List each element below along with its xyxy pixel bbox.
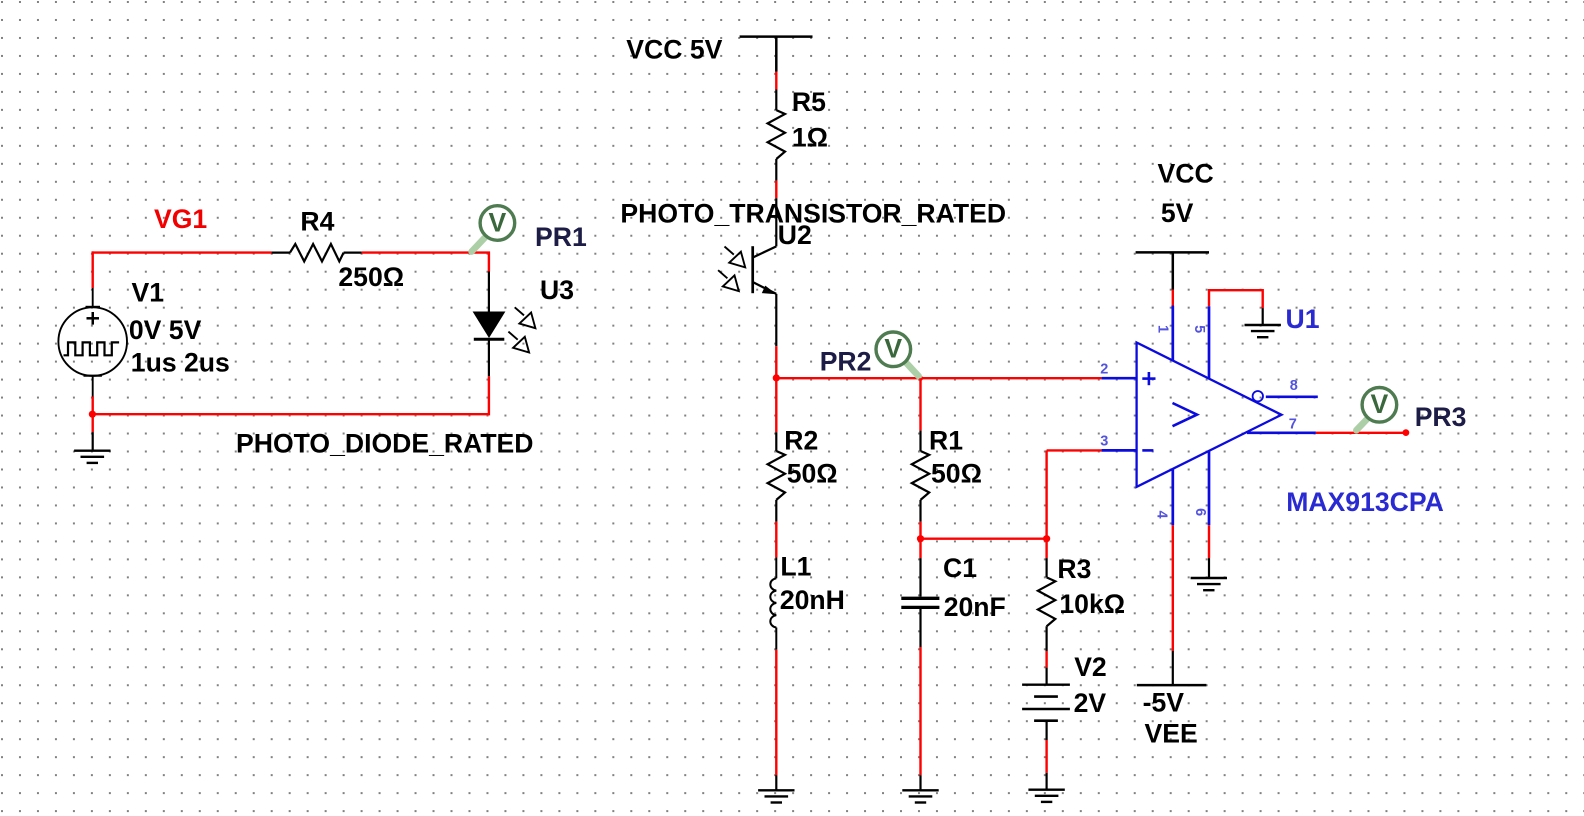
power VCC rail 1 (740, 37, 813, 72)
svg-text:10kΩ: 10kΩ (1059, 589, 1125, 619)
svg-text:5: 5 (1191, 325, 1207, 333)
pin 2 lead (1102, 377, 1137, 380)
svg-text:V2: V2 (1074, 652, 1107, 682)
resistor R1 (912, 431, 929, 522)
wire ground lead V1 (92, 432, 94, 451)
wire VG1 top horizontal (V1 to R4) (92, 251, 272, 253)
wire pin4 to VEE (1172, 525, 1174, 651)
svg-text:50Ω: 50Ω (787, 459, 838, 489)
svg-text:1: 1 (1155, 325, 1171, 333)
svg-text:PHOTO_DIODE_RATED: PHOTO_DIODE_RATED (236, 429, 534, 459)
U2 light arrow 1 (725, 247, 746, 268)
probe PR1 handle (472, 238, 485, 252)
power VCC rail 2 (1136, 252, 1209, 289)
ground GND6 (1191, 578, 1227, 590)
svg-text:7: 7 (1289, 416, 1297, 432)
U3 light arrow 1 (515, 307, 536, 328)
probe PR2 (876, 332, 911, 367)
svg-text:6: 6 (1192, 508, 1208, 516)
svg-text:250Ω: 250Ω (338, 262, 404, 292)
svg-text:U1: U1 (1286, 304, 1320, 334)
wire R5 to U2 collector (775, 181, 777, 199)
wire L1 to ground (775, 650, 777, 776)
wire U1 ground lead (1262, 308, 1264, 325)
node PR3 terminal dot (1403, 429, 1410, 436)
wire V2 ground lead (1045, 773, 1047, 790)
op-amp U1 comparator (1137, 343, 1282, 487)
wire V1 top vertical (91, 251, 93, 288)
ground GND5 (U1) (1245, 325, 1281, 337)
wire U3 bottom (488, 376, 490, 415)
svg-text:8: 8 (1290, 378, 1298, 394)
resistor R5 (768, 90, 785, 181)
svg-text:-5V: -5V (1143, 688, 1185, 718)
svg-text:R5: R5 (792, 87, 826, 117)
capacitor C1 (901, 558, 939, 647)
ground GND1 (74, 451, 110, 463)
wire PR2 horizontal to op-amp (776, 377, 1101, 379)
node junction dot V1 bottom (89, 411, 96, 418)
svg-text:PR1: PR1 (535, 222, 587, 252)
wire C1 to ground (919, 647, 921, 775)
svg-text:2V: 2V (1074, 688, 1107, 718)
wire junction to R3 (1045, 539, 1047, 558)
photodiode U3 (473, 272, 506, 377)
svg-text:U3: U3 (540, 275, 574, 305)
wire U2 emitter down (775, 346, 777, 379)
svg-text:5V: 5V (1161, 198, 1194, 228)
svg-text:VG1: VG1 (154, 204, 207, 234)
svg-text:R2: R2 (784, 426, 818, 456)
wire pin5 to ground (red) (1209, 290, 1263, 308)
pin 4 lead (1171, 469, 1174, 526)
wire pin7 output (1316, 432, 1406, 434)
wire R4 to U3 corner (362, 253, 489, 272)
svg-text:1Ω: 1Ω (792, 123, 828, 153)
node junction small R1 top (918, 376, 923, 381)
svg-text:MAX913CPA: MAX913CPA (1286, 487, 1444, 517)
pin 6 lead (1208, 451, 1211, 526)
wire R3 top vertical from op-amp minus (1047, 449, 1102, 451)
svg-text:R3: R3 (1057, 554, 1091, 584)
pin 1 lead (1171, 306, 1174, 361)
wire R1 bottom to junction (919, 522, 921, 540)
svg-text:PHOTO_TRANSISTOR_RATED: PHOTO_TRANSISTOR_RATED (620, 199, 1006, 229)
wire V1 bottom (91, 397, 93, 433)
wire pin6 to ground (1208, 525, 1210, 558)
resistor R2 (768, 432, 785, 521)
probe PR3 handle (1356, 419, 1367, 431)
wire R2 to L1 (775, 522, 777, 558)
probe PR2 handle (906, 362, 919, 376)
resistor R3 (1038, 558, 1055, 651)
svg-text:V1: V1 (132, 278, 165, 308)
wire R2 top (775, 378, 777, 432)
svg-text:L1: L1 (780, 552, 811, 582)
svg-text:V: V (884, 334, 902, 364)
ground GND3 (902, 790, 938, 802)
svg-text:R1: R1 (929, 426, 963, 456)
svg-text:V: V (489, 207, 507, 237)
svg-text:VCC 5V: VCC 5V (626, 35, 722, 65)
power VEE rail (1137, 651, 1207, 685)
pin 8 lead (1266, 395, 1318, 398)
voltage source V1 (clock) (58, 288, 127, 398)
probe PR1 (480, 206, 515, 241)
wire R3 to V2 (1045, 651, 1047, 668)
wire VCC to R5 (775, 72, 777, 90)
wire C1 top (919, 539, 921, 558)
ground GND4 (1028, 790, 1064, 802)
svg-text:V: V (1371, 389, 1389, 419)
pin 3 lead (1102, 449, 1137, 452)
U2 light arrow 2 (718, 270, 739, 291)
resistor R4 (272, 244, 362, 261)
svg-text:3: 3 (1100, 434, 1108, 450)
svg-text:PR3: PR3 (1415, 402, 1467, 432)
probe PR3 (1362, 388, 1397, 423)
wire bottom return (U3 to V1) (92, 413, 489, 415)
wire pin6 ground lead (1208, 558, 1210, 578)
wire op-amp minus down to junction (1045, 450, 1047, 538)
node junction dot PR2 (773, 374, 780, 381)
svg-text:50Ω: 50Ω (931, 459, 982, 489)
wire C1 ground lead (919, 775, 921, 790)
wire junction to R3 junction (921, 538, 1047, 540)
svg-text:20nF: 20nF (944, 592, 1006, 622)
svg-text:2: 2 (1100, 362, 1108, 378)
wire L1 ground lead (775, 775, 777, 790)
wire VCC to pin1 (1172, 290, 1174, 306)
pin 7 lead (1247, 431, 1316, 434)
svg-text:VEE: VEE (1145, 719, 1198, 749)
battery V2 (1022, 668, 1070, 740)
svg-text:0V 5V: 0V 5V (129, 315, 202, 345)
svg-text:20nH: 20nH (780, 585, 845, 615)
svg-text:PR2: PR2 (820, 347, 872, 377)
wire R1 top (919, 378, 921, 430)
node junction dot C1 top (917, 535, 924, 542)
node junction dot R3 top (1043, 535, 1050, 542)
U3 light arrow 2 (508, 332, 529, 353)
svg-text:VCC: VCC (1158, 159, 1214, 189)
ground GND2 (758, 790, 794, 802)
inductor L1 (770, 557, 776, 649)
wire V2 to ground (1045, 740, 1047, 773)
svg-text:R4: R4 (300, 207, 334, 237)
phototransistor U2 (753, 198, 777, 346)
svg-text:4: 4 (1154, 511, 1170, 519)
svg-text:C1: C1 (943, 553, 977, 583)
svg-text:1us 2us: 1us 2us (131, 348, 230, 378)
pin 5 lead (1208, 306, 1211, 379)
